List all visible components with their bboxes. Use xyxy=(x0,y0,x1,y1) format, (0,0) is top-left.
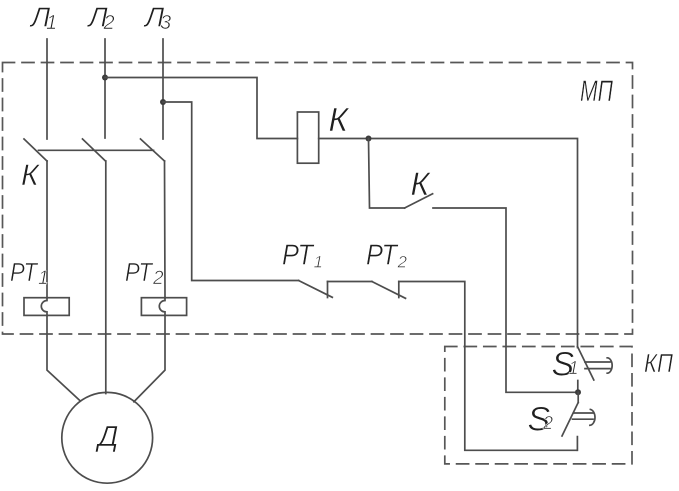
motor Д xyxy=(62,392,153,483)
NC contact РТ2 (control) xyxy=(372,282,406,299)
mechanical link of K poles xyxy=(39,149,154,151)
junction node after coil xyxy=(366,136,372,142)
wire phase Л1 xyxy=(46,39,48,139)
svg-text:К: К xyxy=(411,166,432,202)
svg-text:2: 2 xyxy=(397,252,408,271)
svg-text:К: К xyxy=(329,101,350,138)
svg-text:2: 2 xyxy=(542,413,553,433)
aux contact K (NO) xyxy=(405,194,433,208)
svg-text:1: 1 xyxy=(46,12,57,34)
enclosure МП (dashed box) xyxy=(3,63,633,335)
junction node S1 bottom xyxy=(575,389,581,395)
wire phase Л2 xyxy=(104,39,106,138)
wire coil K to S1 branch xyxy=(319,139,578,348)
thermal element РТ2 xyxy=(141,298,186,316)
contactor main contact K pole 1 xyxy=(24,139,47,161)
wire aux contact K to S1 bottom node xyxy=(433,208,578,392)
wire pole 1 to heater РТ1 xyxy=(46,161,48,298)
svg-text:РТ: РТ xyxy=(282,240,315,272)
svg-text:РТ: РТ xyxy=(10,257,39,287)
svg-text:1: 1 xyxy=(569,358,579,378)
svg-text:2: 2 xyxy=(103,12,115,34)
svg-text:МП: МП xyxy=(580,75,613,108)
coil K xyxy=(297,112,318,163)
thermal element РТ1 xyxy=(24,298,69,316)
button S1 (NC stop) xyxy=(578,347,613,393)
svg-text:3: 3 xyxy=(160,12,171,34)
button S2 (NO start) xyxy=(562,392,595,450)
svg-text:КП: КП xyxy=(644,348,673,378)
junction node on Л2 xyxy=(102,75,108,81)
wire heater РТ2 to motor xyxy=(134,315,165,401)
svg-text:К: К xyxy=(21,159,41,192)
wire phase Л3 xyxy=(162,39,164,139)
wire Л3 node to РТ1 contact xyxy=(163,102,299,281)
NC contact РТ1 (control) xyxy=(299,281,333,298)
wire pole 3 to heater РТ2 xyxy=(164,161,167,298)
enclosure КП (dashed box) xyxy=(445,347,632,464)
svg-text:2: 2 xyxy=(152,268,164,289)
svg-text:РТ: РТ xyxy=(125,257,154,287)
contactor main contact K pole 3 xyxy=(141,139,165,161)
wire node to aux contact K xyxy=(369,139,405,209)
contactor main contact K pole 2 xyxy=(83,139,106,161)
wire Л2 node to coil K xyxy=(105,78,297,139)
svg-text:1: 1 xyxy=(314,252,323,271)
wire РТ1 to РТ2 xyxy=(328,281,372,283)
svg-text:РТ: РТ xyxy=(366,240,399,272)
svg-text:Д: Д xyxy=(95,421,118,453)
svg-text:1: 1 xyxy=(38,268,49,289)
junction node on Л3 xyxy=(160,99,166,105)
wire pole 2 to motor xyxy=(105,161,107,394)
wire heater РТ1 to motor xyxy=(47,315,80,400)
wire РТ2 to button S2 bottom xyxy=(399,282,577,451)
